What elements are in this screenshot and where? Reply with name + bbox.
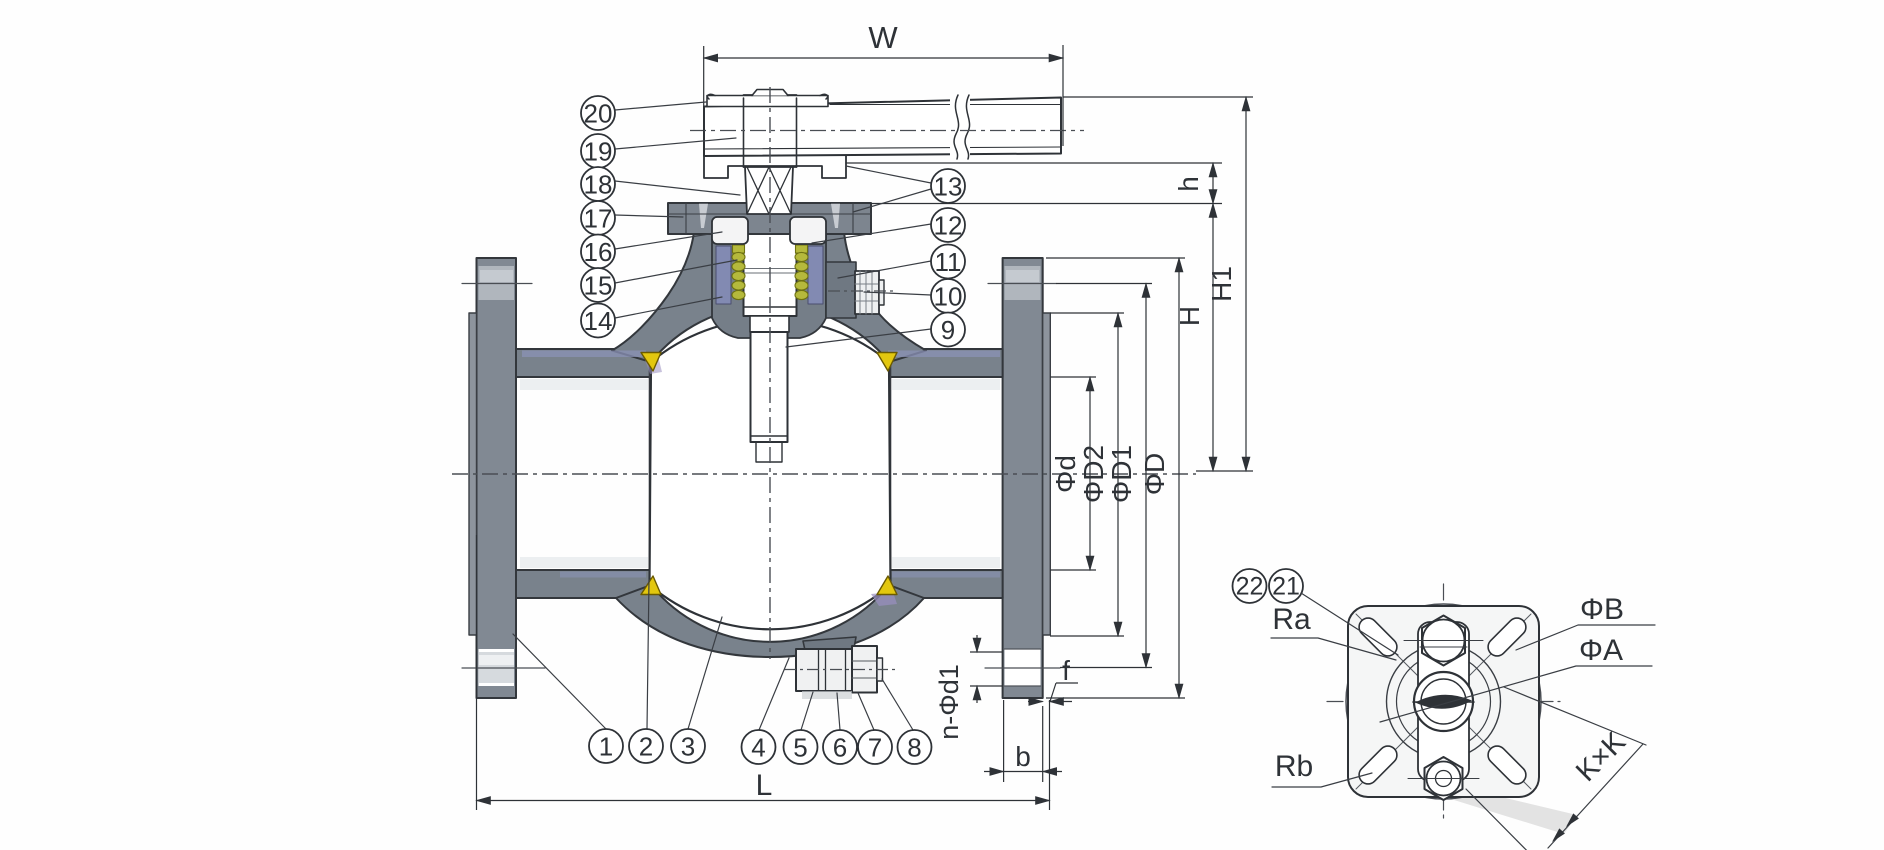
- bore shading streaks: [520, 379, 648, 390]
- svg-text:3: 3: [681, 732, 695, 762]
- left flange bottom bolt hole: [479, 649, 515, 686]
- leader 9: [786, 329, 931, 347]
- packing chamber shadow left: [716, 246, 731, 304]
- wire bolt hole centerline top-right: [988, 283, 1056, 285]
- svg-text:Φd: Φd: [1050, 455, 1081, 493]
- svg-text:12: 12: [934, 211, 963, 241]
- leader 3: [688, 617, 722, 729]
- svg-text:9: 9: [941, 315, 955, 345]
- leader 21-22: [1301, 593, 1398, 655]
- corner slot top-right: [1484, 614, 1529, 659]
- svg-text:20: 20: [584, 99, 613, 129]
- corner slot bottom-right: [1484, 742, 1529, 787]
- balloon 9: [931, 313, 965, 347]
- svg-text:21: 21: [1272, 573, 1300, 601]
- svg-text:n-Φd1: n-Φd1: [934, 664, 964, 740]
- stem slot dark bar: [1415, 695, 1472, 709]
- dim Phi-D line: [1178, 258, 1180, 698]
- seat ring bottom-left: [641, 576, 661, 595]
- dim L extension lines: [477, 535, 1050, 810]
- svg-text:11: 11: [935, 247, 962, 277]
- pad circle inner: [1397, 655, 1491, 749]
- leader 14: [615, 297, 722, 318]
- diagonal construction line 2: [1356, 614, 1531, 789]
- K dim line: [1548, 744, 1643, 848]
- dim h extension lines: [846, 163, 1222, 204]
- drain bolt tip (item 8): [877, 658, 883, 681]
- wire end view vertical centerline: [1443, 584, 1445, 818]
- svg-text:ΦD1: ΦD1: [1106, 445, 1137, 503]
- leader PhiB: [1516, 625, 1655, 650]
- body shell lower: [616, 585, 924, 657]
- svg-text:6: 6: [833, 733, 847, 763]
- leader 10: [864, 292, 931, 295]
- balloon 11: [931, 245, 965, 279]
- bottom-left pipe wall: [516, 570, 658, 598]
- svg-text:18: 18: [584, 170, 613, 200]
- balloon 10: [931, 279, 965, 313]
- wire drain bolt centerline: [784, 669, 896, 671]
- stem housing boss: [712, 232, 826, 338]
- stem neck narrow: [750, 316, 789, 332]
- side bolt boss right (item 11): [826, 262, 856, 318]
- leader 13a: [846, 166, 931, 183]
- svg-text:ΦD2: ΦD2: [1078, 445, 1109, 503]
- leader 11: [838, 261, 931, 278]
- dim W extension lines: [704, 45, 1063, 152]
- stem lower column: [744, 214, 797, 316]
- leader Ra: [1271, 638, 1396, 660]
- wire main horizontal centerline: [452, 473, 1196, 475]
- handle retainer plate (item 20): [707, 96, 828, 107]
- gland right: [790, 217, 826, 244]
- balloon 8: [898, 730, 932, 764]
- balloon 15: [581, 268, 615, 302]
- packing chamber shadow right: [808, 246, 823, 304]
- svg-text:5: 5: [793, 733, 807, 763]
- leader 19: [615, 138, 736, 149]
- dim h line: [1212, 163, 1214, 204]
- diagonal construction line 1: [1356, 614, 1531, 789]
- stem bearing lines: [744, 269, 797, 274]
- svg-text:17: 17: [584, 204, 613, 234]
- balloon 19: [581, 134, 615, 168]
- right flange raised face: [1043, 313, 1051, 635]
- svg-text:f: f: [1062, 655, 1070, 686]
- pipe wall blue accents: [522, 351, 646, 358]
- bonnet flange (item 17): [668, 203, 871, 234]
- svg-text:ΦB: ΦB: [1580, 593, 1624, 626]
- leader 2: [647, 580, 649, 729]
- drain bolt shadow: [802, 691, 852, 699]
- svg-text:14: 14: [584, 306, 613, 336]
- packing rings left (item 15): [732, 245, 745, 300]
- balloon 2: [629, 729, 663, 763]
- bottom-right pipe wall: [882, 570, 1003, 598]
- balloon 21: [1269, 569, 1303, 603]
- drain bolt hex head (item 7): [852, 646, 877, 693]
- stem upper with square section: [744, 95, 797, 167]
- pad circle outer: [1387, 645, 1501, 759]
- leader lines left column: [513, 102, 931, 730]
- K dim extension line lower: [1466, 789, 1549, 850]
- dim b line with outside arrows: [984, 771, 1004, 773]
- leader 8: [882, 679, 913, 730]
- leader Rb: [1272, 773, 1372, 787]
- balloon 3: [671, 729, 705, 763]
- balloon 5: [784, 730, 818, 764]
- wire end view horizontal centerline: [1327, 701, 1560, 703]
- leader 16: [615, 232, 722, 249]
- body cavity seat band right: [884, 362, 891, 585]
- K dim arrows: [1563, 813, 1579, 829]
- dim H1 line: [1245, 97, 1247, 471]
- ball (item 3): [650, 319, 891, 629]
- leader 6: [837, 693, 840, 730]
- leader 13b: [853, 189, 931, 212]
- svg-text:K×K: K×K: [1570, 726, 1632, 788]
- drain boss: [803, 637, 856, 660]
- K dim shaded band: [1454, 789, 1577, 834]
- corner slot top-left (item Ra): [1355, 614, 1400, 659]
- handle bar inner lines: [704, 105, 1061, 150]
- seat ring bottom-right: [877, 576, 897, 595]
- wire bolt hole centerline bottom-right: [985, 667, 1060, 669]
- handle mounting pad (item 21): [704, 154, 846, 178]
- balloon 1: [589, 729, 623, 763]
- body circle behind flange: [1346, 604, 1541, 799]
- right flange body: [1003, 258, 1043, 698]
- leader 1: [513, 634, 607, 730]
- square flange outline: [1348, 606, 1539, 797]
- packing rings right: [795, 245, 808, 300]
- leader 17: [615, 215, 683, 217]
- top hex nut (item 22): [1422, 616, 1465, 666]
- wire bolt hole centerline bottom-left: [462, 667, 545, 669]
- dim Phi-D2 line: [1117, 313, 1119, 636]
- leader 15: [615, 260, 737, 283]
- side bolt hex (item 10): [855, 271, 879, 314]
- left flange top bolt hole: [479, 266, 515, 300]
- stem through handle lines: [744, 98, 797, 167]
- svg-text:Ra: Ra: [1272, 603, 1311, 636]
- svg-text:19: 19: [584, 137, 613, 167]
- top-right pipe wall: [882, 349, 1003, 377]
- stem circle center: [1414, 672, 1473, 731]
- bottom hex nut: [1425, 757, 1463, 800]
- dim f line with outside arrows: [1028, 701, 1043, 703]
- leader PhiA: [1380, 666, 1652, 722]
- corner slot bottom-left (item Rb): [1355, 742, 1400, 787]
- svg-text:4: 4: [751, 733, 765, 763]
- balloon 7: [858, 730, 892, 764]
- balloon 22: [1233, 569, 1267, 603]
- svg-text:W: W: [868, 20, 898, 55]
- K dim extension line upper: [1504, 687, 1646, 745]
- wire vertical stem centerline: [769, 87, 771, 659]
- balloon 16: [581, 235, 615, 269]
- balloon 14: [581, 304, 615, 338]
- svg-text:15: 15: [584, 271, 613, 301]
- body cavity seat band left: [650, 362, 657, 585]
- dim H line: [1212, 204, 1214, 472]
- drain bolt washers (items 5,6): [796, 649, 852, 691]
- centerline extension right: [1196, 470, 1253, 472]
- dim b extension lines: [1004, 700, 1043, 782]
- central boss: [1418, 622, 1469, 781]
- left flange body 1: [477, 258, 517, 698]
- svg-text:2: 2: [639, 732, 653, 762]
- stem tang bottom line: [751, 436, 788, 462]
- svg-text:16: 16: [584, 237, 613, 267]
- dim L line: [477, 800, 1050, 802]
- balloon 12: [931, 208, 965, 242]
- seat ring top-left (item 2): [641, 353, 661, 372]
- dim Phi-D1 extension lines: [1056, 284, 1152, 668]
- stem tang into ball: [751, 332, 788, 442]
- balloon 4: [742, 730, 776, 764]
- svg-text:ΦA: ΦA: [1579, 634, 1623, 667]
- svg-text:1: 1: [599, 732, 613, 762]
- gland left (item 16): [712, 217, 748, 244]
- leader 18: [615, 181, 740, 195]
- body shell upper: [612, 232, 926, 362]
- right flange bottom bolt hole: [1005, 649, 1041, 686]
- balloon 13: [931, 169, 965, 203]
- svg-text:10: 10: [934, 282, 963, 312]
- svg-text:b: b: [1015, 741, 1031, 772]
- balloon 20: [581, 96, 615, 130]
- balloon 17: [581, 201, 615, 235]
- leader 5: [801, 692, 813, 730]
- svg-text:8: 8: [907, 733, 921, 763]
- seat ring top-right: [877, 353, 897, 372]
- svg-text:7: 7: [868, 733, 882, 763]
- dim n-Phi-d1 extension lines: [970, 652, 1003, 686]
- handle break gap: [950, 94, 970, 158]
- balloon 6: [823, 730, 857, 764]
- handle bar (item 19): [704, 98, 1061, 157]
- svg-text:H1: H1: [1206, 266, 1237, 302]
- dim Phi-d extension lines: [1050, 377, 1096, 570]
- svg-text:Rb: Rb: [1275, 750, 1313, 783]
- handle break squiggle: [954, 95, 970, 159]
- leader 12: [812, 224, 931, 243]
- wire side bolt centerline: [828, 290, 893, 292]
- dim Phi-d line: [1089, 377, 1091, 570]
- stem square cross hatch: [747, 167, 791, 214]
- dim n-Phi-d1 line with outside arrows: [976, 635, 978, 652]
- leader 20: [615, 102, 706, 110]
- balloon 18: [581, 167, 615, 201]
- leader 7: [858, 693, 874, 730]
- right flange top bolt hole: [1005, 266, 1041, 300]
- wire bolt hole centerline top-left: [462, 283, 532, 285]
- dim Phi-D2 extension lines: [1050, 313, 1124, 636]
- svg-text:h: h: [1173, 176, 1204, 192]
- stem step line: [744, 306, 797, 308]
- dim H1 extension line: [1063, 96, 1253, 98]
- top-left pipe wall: [516, 349, 658, 377]
- left flange raised face: [469, 313, 477, 635]
- dim Phi-D extension lines: [1046, 258, 1185, 698]
- dim Phi-D1 line: [1145, 284, 1147, 668]
- dim W line: [704, 57, 1063, 59]
- svg-text:13: 13: [934, 172, 963, 202]
- svg-text:ΦD: ΦD: [1139, 453, 1170, 496]
- leader 4: [759, 658, 789, 730]
- svg-text:L: L: [756, 769, 773, 802]
- wire handle centerline: [690, 130, 1084, 132]
- svg-text:22: 22: [1236, 573, 1264, 601]
